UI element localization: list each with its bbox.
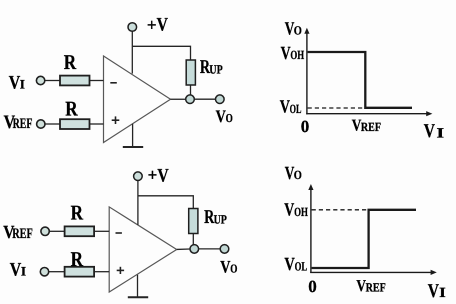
- svg-text:V: V: [216, 106, 226, 126]
- svg-text:O: O: [294, 24, 302, 38]
- svg-text:REF: REF: [366, 280, 386, 294]
- svg-text:I: I: [20, 76, 25, 91]
- svg-text:UP: UP: [214, 213, 228, 227]
- svg-text:OL: OL: [295, 259, 308, 273]
- svg-text:R: R: [71, 247, 84, 271]
- svg-text:O: O: [294, 168, 302, 182]
- svg-text:0: 0: [308, 277, 317, 296]
- svg-text:I: I: [437, 126, 445, 141]
- svg-text:OH: OH: [294, 205, 308, 219]
- svg-text:V: V: [157, 14, 169, 35]
- svg-text:O: O: [226, 111, 233, 125]
- svg-text:R: R: [65, 96, 78, 120]
- svg-text:V: V: [428, 281, 439, 302]
- svg-text:REF: REF: [12, 226, 33, 242]
- svg-text:R: R: [71, 201, 84, 225]
- svg-text:V: V: [424, 121, 435, 142]
- svg-text:I: I: [21, 264, 26, 279]
- svg-text:UP: UP: [209, 63, 223, 77]
- svg-text:REF: REF: [361, 120, 381, 134]
- svg-text:O: O: [230, 261, 237, 275]
- svg-text:OL: OL: [290, 102, 302, 116]
- svg-text:+: +: [147, 16, 157, 35]
- svg-text:REF: REF: [13, 116, 33, 132]
- svg-text:OH: OH: [290, 48, 304, 62]
- svg-text:+: +: [148, 166, 158, 185]
- svg-text:R: R: [64, 50, 77, 74]
- svg-text:V: V: [9, 73, 21, 94]
- svg-text:V: V: [157, 166, 169, 187]
- svg-text:I: I: [439, 286, 446, 301]
- svg-text:V: V: [10, 260, 22, 281]
- svg-text:V: V: [220, 256, 230, 276]
- svg-text:0: 0: [301, 117, 310, 136]
